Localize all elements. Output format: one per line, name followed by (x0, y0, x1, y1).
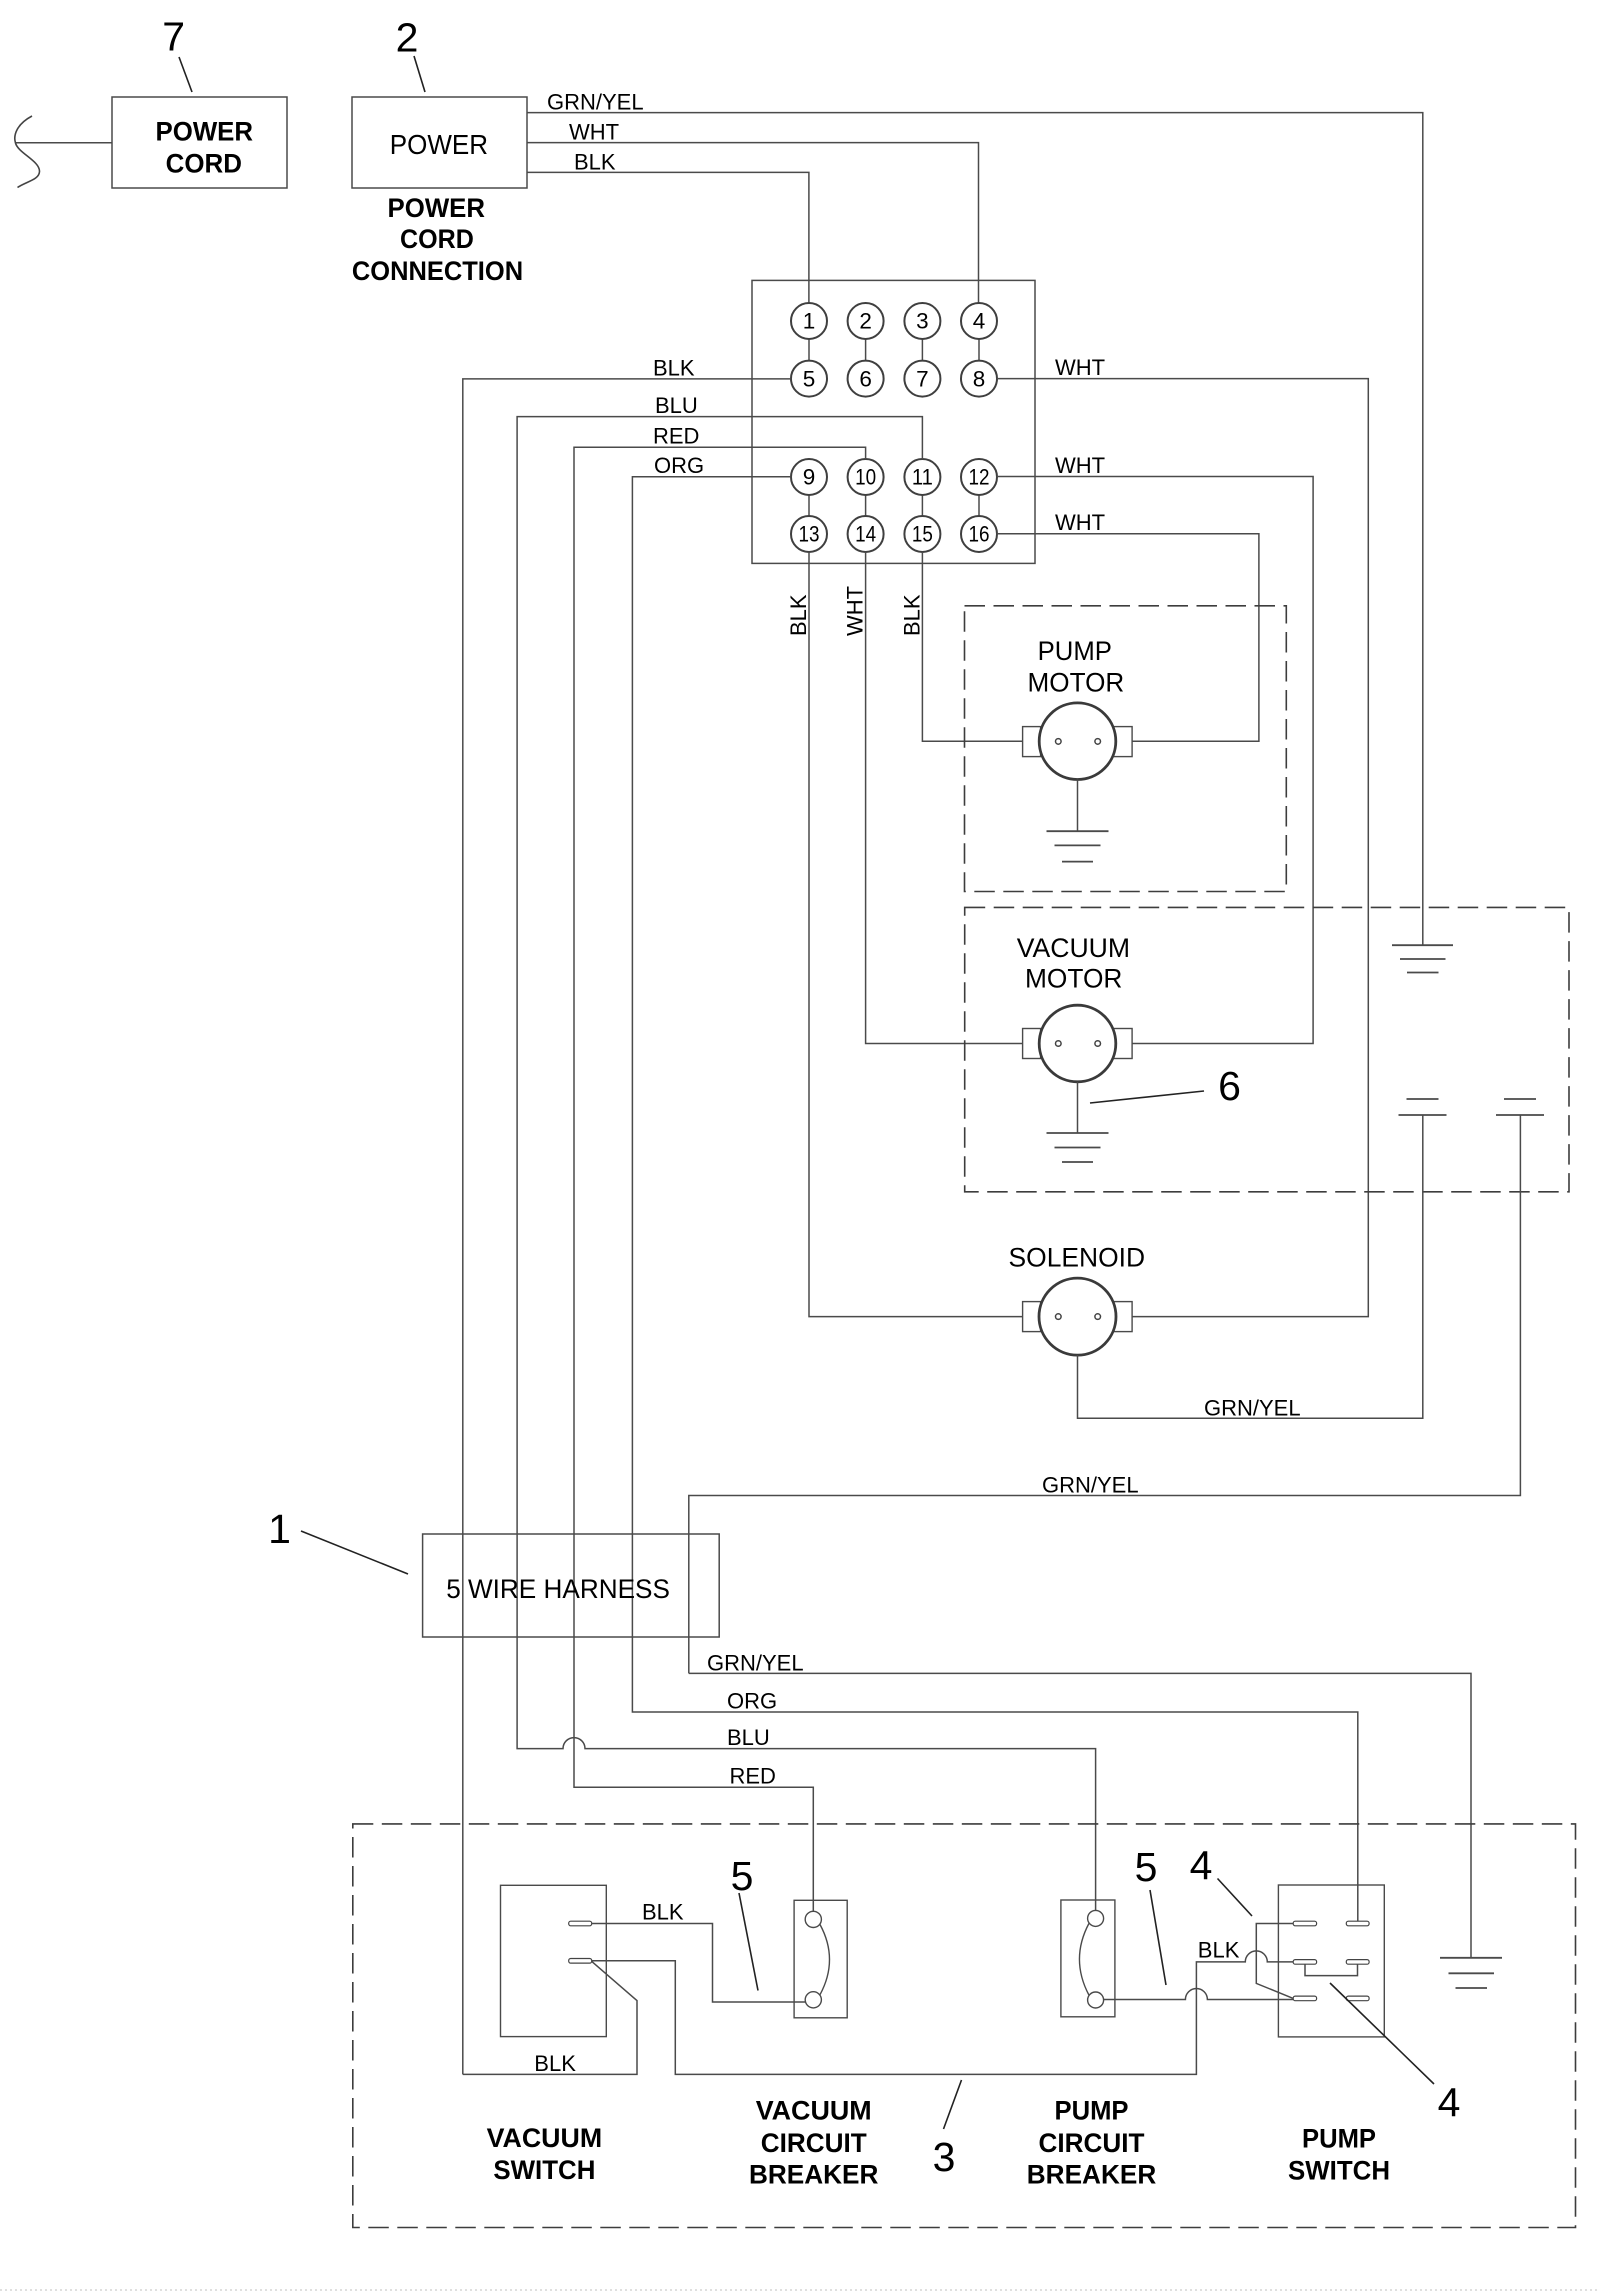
callout 4 pump switch top (1190, 1843, 1252, 1917)
svg-text:8: 8 (973, 366, 986, 391)
callout 3 (933, 2080, 962, 2180)
pin 15 (904, 516, 940, 552)
label vacuum circuit breaker (749, 2095, 879, 2189)
svg-text:CONNECTION: CONNECTION (352, 256, 523, 286)
svg-text:BREAKER: BREAKER (1027, 2159, 1157, 2189)
wire RED pin10 to harness (574, 424, 866, 1912)
connector pin ties (809, 339, 979, 517)
power cord connection box (352, 97, 527, 188)
svg-text:5: 5 (731, 1853, 754, 1899)
svg-text:POWER: POWER (156, 117, 254, 147)
svg-text:VACUUM: VACUUM (487, 2123, 603, 2153)
svg-text:CIRCUIT: CIRCUIT (1039, 2128, 1145, 2158)
pin 12 (961, 459, 997, 495)
svg-text:WHT: WHT (1055, 355, 1105, 380)
wire WHT pin14 to vacuum motor (843, 552, 1023, 1044)
battery symbol B (1496, 1099, 1544, 1115)
pin 3 (904, 303, 940, 339)
svg-text:BLK: BLK (900, 594, 925, 636)
svg-text:POWER: POWER (390, 129, 488, 160)
wire GRN/YEL power to ground (527, 90, 1423, 946)
svg-text:POWER: POWER (388, 193, 486, 223)
svg-text:BREAKER: BREAKER (749, 2159, 879, 2189)
pin 10 (848, 459, 884, 495)
label pump switch (1288, 2124, 1390, 2186)
wire ORG pin9 to harness (632, 453, 1357, 1921)
svg-text:GRN/YEL: GRN/YEL (547, 90, 644, 115)
svg-text:GRN/YEL: GRN/YEL (707, 1650, 804, 1675)
svg-text:MOTOR: MOTOR (1028, 667, 1125, 697)
pin 1 (791, 303, 827, 339)
svg-text:PUMP: PUMP (1038, 636, 1112, 666)
svg-text:BLU: BLU (655, 393, 698, 418)
vacuum motor M2 (1023, 1005, 1133, 1082)
label pump circuit breaker (1027, 2095, 1157, 2189)
vacuum motor dashed box (965, 907, 1569, 1191)
svg-text:VACUUM: VACUUM (756, 2095, 872, 2125)
pin 7 (904, 361, 940, 397)
svg-text:GRN/YEL: GRN/YEL (1042, 1473, 1139, 1498)
pump switch S2 (1278, 1885, 1384, 2037)
svg-text:CORD: CORD (166, 149, 242, 179)
vacuum circuit breaker CB1 (794, 1900, 847, 2018)
svg-text:11: 11 (912, 465, 933, 490)
page edge dotted line (0, 2289, 1600, 2291)
callout 6 (1090, 1063, 1241, 1109)
callout 1 (268, 1506, 408, 1574)
svg-text:6: 6 (859, 366, 872, 391)
svg-text:5 WIRE HARNESS: 5 WIRE HARNESS (446, 1574, 670, 1604)
svg-text:RED: RED (730, 1764, 776, 1789)
callout 7 (162, 14, 192, 93)
wire BLK power to pin1 (527, 149, 809, 303)
ground G4 vacuum motor (1047, 1082, 1109, 1162)
pin 8 (961, 361, 997, 397)
wire plug to power cord (16, 142, 112, 144)
svg-text:12: 12 (969, 465, 990, 490)
callout 4 pump switch bottom (1330, 1983, 1460, 2126)
power cord box (112, 97, 287, 188)
power cord plug squiggle (15, 116, 40, 188)
ground G1 top right (1392, 945, 1453, 972)
svg-text:BLU: BLU (727, 1725, 770, 1750)
callout 5 pump breaker (1135, 1844, 1166, 1985)
pump motor label (1028, 636, 1125, 698)
pump switch link row1-row3 (1256, 1924, 1293, 1999)
svg-text:5: 5 (1135, 1844, 1158, 1890)
svg-text:4: 4 (973, 309, 986, 334)
pin 6 (848, 361, 884, 397)
label vacuum switch (487, 2123, 603, 2185)
svg-text:7: 7 (162, 14, 185, 60)
wire BLK pin15 to pump motor (900, 552, 1023, 742)
svg-text:3: 3 (916, 309, 929, 334)
solenoid L1 (1023, 1278, 1133, 1355)
wire BLK pin5 to harness (463, 355, 792, 2074)
svg-text:BLK: BLK (534, 2051, 576, 2076)
svg-text:PUMP: PUMP (1302, 2124, 1376, 2154)
vacuum switch S1 (501, 1885, 607, 2036)
svg-text:16: 16 (969, 522, 990, 547)
vacuum motor label (1017, 933, 1130, 994)
pin 9 (791, 459, 827, 495)
svg-text:WHT: WHT (1055, 453, 1105, 478)
svg-text:SOLENOID: SOLENOID (1009, 1243, 1146, 1273)
wire WHT pin12 to vacuum motor (997, 453, 1314, 1044)
wire BLK vacuum switch to breaker (592, 1900, 806, 2002)
battery symbol A (1399, 1099, 1447, 1115)
ground G3 pump switch (1440, 1958, 1502, 1988)
pin 5 (791, 361, 827, 397)
power cord connection caption (352, 193, 523, 286)
svg-text:BLK: BLK (653, 355, 695, 380)
svg-text:6: 6 (1218, 1063, 1241, 1109)
pin 4 (961, 303, 997, 339)
svg-text:BLK: BLK (574, 149, 616, 174)
pin 14 (848, 516, 884, 552)
wire WHT pin8 to solenoid (997, 355, 1369, 1317)
svg-text:9: 9 (803, 465, 816, 490)
wire WHT pin16 to pump motor (997, 510, 1259, 741)
wire BLK vacuum switch to harness (463, 1961, 637, 2076)
svg-text:MOTOR: MOTOR (1025, 964, 1122, 994)
svg-text:1: 1 (803, 309, 816, 334)
pump circuit breaker CB2 (1061, 1900, 1115, 2017)
svg-text:VACUUM: VACUUM (1017, 933, 1130, 963)
pump motor M1 (1023, 703, 1133, 780)
wire GRN/YEL harness to ground G3 (689, 1650, 1471, 1957)
svg-text:WHT: WHT (569, 120, 619, 145)
pump switch link row2 (1305, 1964, 1358, 1975)
wire GRN/YEL solenoid to battery A (1078, 1115, 1423, 1420)
callout 2 (396, 15, 425, 93)
svg-text:WHT: WHT (1055, 510, 1105, 535)
wire BLK pin13 to solenoid (786, 552, 1023, 1317)
svg-text:BLK: BLK (642, 1900, 684, 1925)
svg-text:1: 1 (268, 1506, 291, 1552)
bottom dashed enclosure (353, 1824, 1576, 2228)
pin 13 (791, 516, 827, 552)
svg-text:ORG: ORG (727, 1689, 777, 1714)
5 wire harness box (423, 1534, 720, 1637)
svg-text:ORG: ORG (654, 453, 704, 478)
svg-text:13: 13 (799, 522, 820, 547)
svg-text:5: 5 (803, 366, 816, 391)
wire GRN/YEL harness to battery B (689, 1115, 1521, 1673)
svg-text:PUMP: PUMP (1055, 2095, 1129, 2125)
svg-text:CIRCUIT: CIRCUIT (761, 2128, 867, 2158)
svg-text:GRN/YEL: GRN/YEL (1204, 1395, 1301, 1420)
svg-text:2: 2 (396, 15, 419, 61)
wire BLK breaker CB2 to pump switch (1104, 1989, 1294, 2000)
svg-text:10: 10 (855, 465, 876, 490)
callout 5 vacuum breaker (731, 1853, 758, 1991)
svg-text:3: 3 (933, 2134, 956, 2180)
svg-text:RED: RED (653, 424, 699, 449)
pin 2 (848, 303, 884, 339)
wire WHT power to pin4 (527, 120, 979, 304)
svg-text:SWITCH: SWITCH (493, 2155, 595, 2185)
svg-text:BLK: BLK (1198, 1937, 1240, 1962)
svg-text:4: 4 (1438, 2080, 1461, 2126)
svg-text:4: 4 (1190, 1843, 1213, 1889)
svg-text:7: 7 (916, 366, 929, 391)
svg-text:BLK: BLK (786, 594, 811, 636)
svg-text:15: 15 (912, 522, 933, 547)
wire BLU pin11 to harness (517, 393, 1096, 1910)
svg-text:14: 14 (855, 522, 876, 547)
pin 16 (961, 516, 997, 552)
pump motor dashed box (965, 606, 1287, 892)
wire BLK vacuum switch to pump switch (592, 1937, 1294, 2074)
svg-text:CORD: CORD (400, 224, 474, 254)
svg-text:2: 2 (859, 309, 872, 334)
pin 11 (904, 459, 940, 495)
svg-text:WHT: WHT (843, 586, 868, 636)
ground G2 pump motor (1047, 780, 1109, 862)
svg-text:SWITCH: SWITCH (1288, 2156, 1390, 2186)
connector block box (752, 280, 1035, 563)
